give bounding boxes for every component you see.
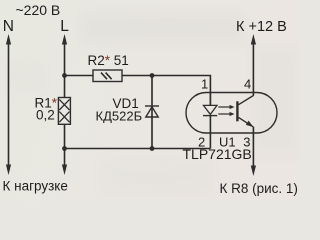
svg-text:К R8 (рис. 1): К R8 (рис. 1) (220, 181, 298, 196)
wire pin3 emitter down (252, 127, 254, 169)
svg-text:R2* 51: R2* 51 (88, 53, 129, 68)
node junction bottom left (62, 146, 67, 151)
wire pin1 inside (209, 93, 211, 106)
terminal arrow to R8 (251, 166, 256, 177)
node junction L-R2 (62, 73, 67, 78)
svg-text:TLP721GB: TLP721GB (183, 146, 252, 162)
resistor R2 body (93, 70, 122, 82)
svg-text:К +12 В: К +12 В (236, 19, 287, 35)
node junction VD1 top (150, 73, 155, 78)
resistor R1 fusible X marks (59, 99, 69, 122)
svg-text:0,2: 0,2 (36, 108, 55, 123)
wire R2 to pin1 corner (122, 76, 210, 106)
terminal arrow load bottom (62, 165, 67, 176)
transistor Q base bar (236, 101, 238, 121)
wire bottom (65, 148, 211, 150)
wire L rail top (64, 40, 66, 98)
svg-text:L: L (60, 18, 69, 35)
transistor emitter arrowhead (246, 121, 254, 127)
terminal arrow +12V (251, 34, 256, 45)
terminal arrow N bottom (6, 165, 11, 176)
svg-text:1: 1 (201, 77, 208, 92)
terminal arrow L top (62, 34, 67, 45)
svg-text:N: N (3, 18, 14, 35)
wire VD1 branch (151, 76, 153, 149)
opto light arrow upper (218, 105, 234, 109)
opto light arrow lower (218, 112, 234, 116)
wire pin2 (209, 116, 211, 149)
optocoupler U1 body (186, 93, 277, 134)
resistor R2 power slashes (101, 73, 112, 80)
node junction VD1 bottom (150, 146, 155, 151)
svg-text:4: 4 (244, 77, 251, 92)
wire pin4 collector up (252, 42, 254, 96)
transistor emitter (239, 117, 253, 126)
svg-text:КД522Б: КД522Б (96, 109, 143, 124)
svg-text:К нагрузке: К нагрузке (3, 179, 68, 194)
svg-text:~220 В: ~220 В (16, 2, 61, 18)
resistor R1 body (58, 98, 70, 125)
paper background (0, 0, 300, 201)
wire N rail (8, 40, 10, 169)
opto LED triangle (204, 105, 218, 114)
wire top branch left (65, 75, 94, 77)
terminal arrow N top (6, 34, 11, 45)
opto LED cathode bar (203, 115, 217, 117)
diode VD1 symbol (145, 106, 159, 117)
wire L rail bottom (64, 124, 66, 169)
transistor collector (239, 95, 254, 104)
